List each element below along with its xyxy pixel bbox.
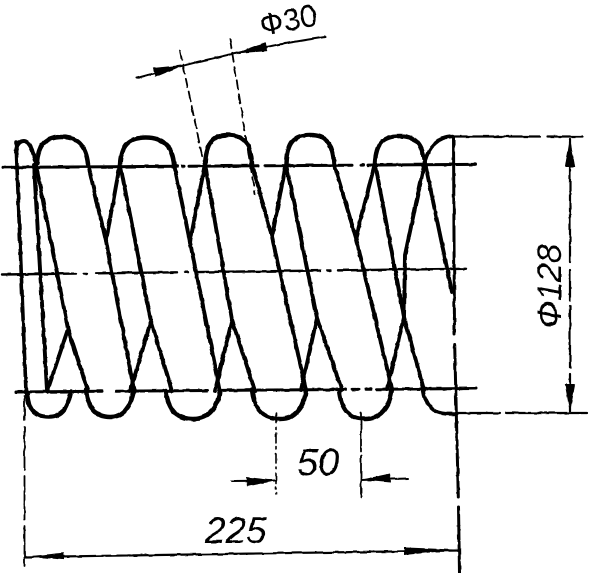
bottom coil arc U5 — [339, 389, 392, 419]
svg-text:225: 225 — [204, 510, 267, 551]
svg-text:Ф30: Ф30 — [257, 0, 321, 43]
225 arrow left — [27, 553, 64, 560]
spring left end edge — [16, 142, 26, 392]
coil line A2 left to V1 — [106, 164, 120, 241]
coil line A4 left to V3 — [272, 164, 286, 237]
50 extension line left (dash-dot) — [275, 413, 277, 494]
50 arrow right — [360, 474, 391, 483]
top coil arc A1 — [37, 137, 88, 164]
top coil arc A5 — [375, 136, 424, 163]
spring right end edge / extension line for 225 — [454, 137, 460, 573]
225 arrow right — [404, 547, 459, 555]
top coil arc A4 — [286, 135, 334, 164]
center axis line — [2, 269, 466, 275]
top coil arc A3 — [205, 135, 252, 165]
coil front line A5 right to right edge — [424, 158, 452, 292]
coil front line A1 right to V1 — [88, 164, 134, 390]
top coil arc A6 (right end) — [425, 137, 452, 162]
bottom coil arc U2 — [86, 390, 134, 417]
Ф128 arrow down — [565, 384, 575, 413]
bottom coil arc U3 — [166, 390, 220, 419]
Ф128 extension line bottom — [456, 412, 587, 414]
bottom tangent line — [16, 389, 476, 393]
top coil arc A2 — [120, 138, 174, 166]
coil wire lines — [34, 158, 452, 392]
Ф30 arrow right — [235, 42, 267, 53]
Ф128 arrow up — [565, 139, 575, 168]
225 dimension line — [25, 551, 458, 558]
coil front line A2 right to V2 — [174, 164, 220, 390]
svg-text:Ф128: Ф128 — [531, 244, 569, 328]
Ф128 extension line top — [452, 135, 583, 137]
dimension Ф30 leader line — [137, 37, 325, 78]
bottom coil arc U4 — [252, 390, 306, 419]
coil back line from A5 left — [375, 163, 424, 390]
Ф128 dimension line — [569, 139, 571, 411]
Ф30 extension line left (dashed) — [180, 51, 211, 198]
coil back line from A4 left — [286, 164, 342, 390]
coil front line A4 right to V4 — [334, 164, 392, 389]
50 arrow left — [246, 477, 277, 487]
225 extension line left (dash-dot) — [24, 396, 26, 566]
50 extension line right — [360, 412, 362, 497]
svg-text:50: 50 — [297, 442, 339, 484]
coil line A6 left down — [404, 161, 425, 317]
coil back line from A2 left — [120, 164, 172, 391]
coil back line from A3 left — [205, 164, 255, 391]
left end coil line — [34, 165, 47, 390]
bottom coil arc U6 (right end) — [423, 390, 454, 414]
50 dimension line — [232, 479, 408, 482]
coil line A5 left to V4 — [356, 163, 375, 238]
bottom coil arc U1 — [27, 391, 71, 417]
Ф30 extension line right (dashed) — [230, 39, 255, 194]
coil front line A3 right to V3 — [252, 164, 306, 390]
coil back line from A1 left — [36, 165, 88, 392]
Ф30 arrow left — [153, 65, 185, 78]
top tangent line — [3, 164, 475, 167]
coil line A3 left to V2 — [190, 164, 205, 242]
top coil arc A0 (left end small) — [16, 141, 36, 163]
